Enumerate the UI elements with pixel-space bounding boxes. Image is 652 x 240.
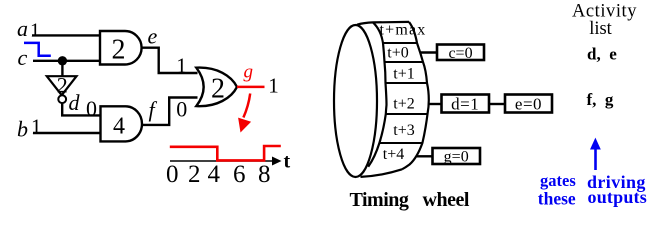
- event box g=0: [433, 148, 481, 164]
- junction dot on c wire: [58, 56, 67, 65]
- svg-text:t+max: t+max: [379, 22, 426, 39]
- wire e: U1 output to OR U4: [142, 48, 198, 73]
- waveform on c (blue step): [24, 43, 51, 56]
- time axis: [170, 160, 274, 162]
- timing wheel drum (left rim ellipse): [334, 25, 377, 177]
- svg-text:g=0: g=0: [444, 149, 469, 166]
- and-gate U2: [101, 106, 142, 141]
- wheel inner left boundary arc: [368, 22, 386, 166]
- and-gate U1: [100, 31, 142, 65]
- wire inverter to AND U2 (node d): [62, 103, 101, 115]
- svg-text:f, g: f, g: [587, 90, 614, 109]
- svg-text:2: 2: [188, 161, 201, 188]
- event box c=0: [437, 45, 484, 61]
- wire c to AND U1: [33, 60, 101, 62]
- wire a to AND U1: [32, 34, 101, 36]
- event box e=0: [505, 95, 552, 113]
- svg-text:Timing: Timing: [350, 189, 409, 211]
- svg-text:c: c: [18, 45, 28, 70]
- svg-text:t: t: [284, 151, 291, 173]
- svg-text:0: 0: [86, 96, 97, 121]
- svg-text:d, e: d, e: [587, 44, 617, 63]
- red arrow from g to waveform: [243, 94, 250, 118]
- svg-text:t+0: t+0: [387, 45, 408, 62]
- svg-text:0: 0: [176, 96, 187, 121]
- wheel right boundary arc: [402, 22, 429, 169]
- svg-text:g: g: [244, 62, 254, 83]
- svg-text:e=0: e=0: [515, 95, 542, 114]
- svg-text:d=1: d=1: [451, 95, 479, 114]
- svg-text:6: 6: [233, 161, 246, 188]
- blue arrow up: [594, 149, 597, 170]
- wire junction to inverter: [61, 61, 63, 76]
- svg-text:a: a: [17, 16, 28, 41]
- slot divider t+0 / t+1: [385, 61, 424, 63]
- svg-text:1: 1: [30, 20, 40, 42]
- svg-text:t+4: t+4: [383, 146, 404, 163]
- slot divider t+2 / t+3: [386, 113, 428, 115]
- link wire d=1 to e=0: [489, 103, 505, 105]
- svg-text:2: 2: [211, 74, 225, 105]
- svg-text:t+3: t+3: [393, 122, 414, 139]
- svg-text:1: 1: [268, 74, 279, 98]
- svg-text:wheel: wheel: [423, 189, 470, 211]
- svg-text:e: e: [148, 24, 158, 49]
- svg-text:1: 1: [176, 53, 187, 77]
- wheel bottom rim: [361, 169, 403, 177]
- stub wire to event box d=1: [429, 103, 442, 105]
- svg-text:these: these: [538, 189, 576, 209]
- svg-text:8: 8: [258, 161, 271, 188]
- or-gate U4: [196, 68, 237, 107]
- svg-text:4: 4: [208, 161, 221, 188]
- waveform g (red): [170, 146, 281, 160]
- wire f: U2 output to OR U4: [142, 98, 198, 125]
- svg-text:outputs: outputs: [588, 187, 647, 207]
- svg-text:gates: gates: [540, 171, 576, 190]
- slot divider t+3 / t+4: [379, 142, 422, 144]
- svg-text:2: 2: [57, 72, 68, 97]
- svg-text:d: d: [69, 90, 81, 115]
- wheel top rim: [357, 22, 409, 25]
- svg-text:list: list: [589, 19, 612, 39]
- inverter U3 triangle: [47, 76, 77, 95]
- output wire g (red): [237, 86, 265, 89]
- slot divider t+max / t+0: [383, 42, 417, 44]
- slot divider t+1 / t+2: [386, 82, 428, 84]
- event box d=1: [442, 95, 490, 113]
- svg-text:4: 4: [113, 114, 125, 140]
- svg-text:c=0: c=0: [448, 45, 472, 62]
- svg-text:2: 2: [112, 35, 126, 66]
- svg-text:t+1: t+1: [393, 65, 414, 82]
- stub wire to event box g=0: [417, 155, 433, 157]
- wire b to AND U2: [33, 132, 101, 134]
- svg-text:t+2: t+2: [393, 96, 414, 113]
- stub wire to event box c=0: [420, 51, 437, 53]
- inverter U3 bubble: [58, 95, 66, 103]
- svg-text:1: 1: [31, 115, 42, 139]
- svg-text:b: b: [17, 117, 28, 142]
- svg-text:0: 0: [166, 161, 179, 188]
